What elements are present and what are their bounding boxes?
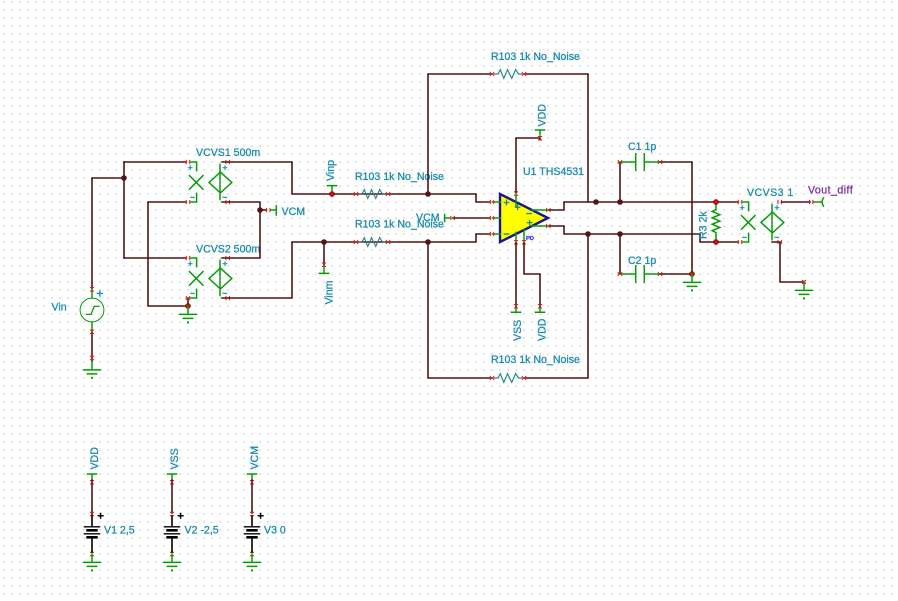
label VDD top marker [535, 130, 544, 135]
svg-text:VSS: VSS [512, 320, 524, 341]
wire VCM node down to VCVS2 out+ [222, 210, 260, 258]
node dot upper a [593, 199, 599, 205]
wire Vin minus to ground [91, 331, 93, 361]
svg-text:Vin: Vin [52, 302, 67, 314]
node junction Vin/controls [121, 175, 127, 181]
wire C1 right to ground rail [660, 162, 692, 273]
label Vout_diff marker [814, 201, 821, 203]
capacitor C2 [618, 266, 663, 283]
svg-text:R103 1k No_Noise: R103 1k No_Noise [491, 354, 580, 366]
ground caps [684, 274, 701, 292]
vcvs VCVS3 [738, 200, 784, 244]
svg-text:C1 1p: C1 1p [628, 141, 656, 153]
svg-text:VCM: VCM [282, 206, 306, 218]
wire top feedback loop [428, 74, 492, 194]
label VSS marker [511, 309, 520, 313]
svg-text:VCVS2 500m: VCVS2 500m [196, 244, 260, 256]
svg-text:Vinm: Vinm [324, 280, 336, 304]
op-amp U1 THS4531 [490, 191, 551, 244]
wire C1 left leg [619, 162, 621, 202]
svg-text:Vout_diff: Vout_diff [808, 185, 853, 197]
node R3 bottom [713, 239, 719, 245]
wire bottom feedback loop [428, 242, 492, 378]
ground VCVS3 [796, 282, 813, 300]
node R3 top [713, 199, 719, 205]
label Vinp marker [327, 186, 336, 191]
wire VSS stub [515, 243, 517, 308]
svg-text:VDD: VDD [89, 447, 101, 470]
battery V3 [244, 474, 264, 572]
svg-text:R103 1k No_Noise: R103 1k No_Noise [355, 171, 444, 183]
wire VCVS2 out- to Vinm rail [222, 234, 490, 298]
wire C2 right to ground node [660, 273, 692, 275]
node dot lower b [617, 231, 623, 237]
ground left [180, 306, 197, 324]
label VDD bottom marker [535, 309, 544, 313]
wire Vinm stub [323, 242, 325, 265]
resistor R103 bottom feedback [490, 374, 527, 383]
vcvs VCVS2 [186, 256, 232, 300]
wire VDD top to opamp [516, 138, 540, 192]
svg-text:R3 2k: R3 2k [698, 211, 710, 239]
label Vinm marker [319, 267, 328, 273]
wire VDD stub [524, 243, 540, 308]
wire VCM to opamp [453, 217, 490, 219]
node Vinm junction [321, 239, 327, 245]
svg-text:VSS: VSS [169, 448, 181, 469]
svg-text:VDD: VDD [536, 104, 548, 127]
wire out minus to upper rail [549, 202, 738, 210]
wire VCVS1 out+ to Vinp rail [222, 162, 490, 202]
ground Vin [84, 362, 101, 380]
svg-text:VCVS3 1: VCVS3 1 [747, 187, 794, 199]
node dot lower a [585, 231, 591, 237]
battery V1 [84, 474, 104, 572]
node junction lower feedback tap [425, 239, 431, 245]
svg-text:C2 1p: C2 1p [628, 255, 656, 267]
wire VCVS1 control minus to ground [148, 202, 188, 306]
battery V2 [164, 474, 184, 572]
node dot upper b [617, 199, 623, 205]
wire VCVS3 out- to ground [772, 242, 803, 282]
voltage source Vin [80, 287, 104, 334]
resistor R103 top feedback [490, 70, 527, 79]
svg-text:V3 0: V3 0 [264, 525, 286, 537]
node VCM junction [257, 207, 263, 213]
resistor R3 [712, 203, 720, 241]
node junction ground left [185, 303, 191, 309]
svg-text:Vinp: Vinp [325, 160, 337, 181]
node junction upper feedback tap [425, 191, 431, 197]
svg-text:VCM: VCM [249, 446, 261, 470]
svg-text:U1 THS4531: U1 THS4531 [523, 166, 584, 178]
wire VCVS2 control minus stub [187, 298, 189, 306]
wire to VCVS2 control plus [124, 257, 186, 259]
svg-text:V2 -2,5: V2 -2,5 [185, 525, 219, 537]
wire VCVS1 out- to VCM node [222, 202, 260, 210]
wire to VCVS1 control plus [124, 161, 186, 163]
svg-text:PD: PD [526, 236, 534, 242]
wire Vin plus up to corner [92, 178, 124, 289]
svg-text:R103 1k No_Noise: R103 1k No_Noise [491, 51, 580, 63]
wire C2 left leg [619, 234, 621, 274]
wire VCVS3 out+ to Vout label [782, 201, 810, 203]
svg-text:V1 2,5: V1 2,5 [104, 525, 135, 537]
svg-text:VCM: VCM [416, 212, 440, 224]
svg-text:VCVS1 500m: VCVS1 500m [196, 147, 260, 159]
wire control bus vertical [123, 162, 125, 258]
vcvs VCVS1 [186, 160, 232, 204]
svg-text:VDD: VDD [536, 318, 548, 341]
node junction cap ground [689, 271, 695, 277]
wire out plus to lower rail [549, 226, 738, 242]
resistor R103 lower input [354, 238, 391, 247]
capacitor C1 [618, 154, 663, 171]
resistor R103 upper input [354, 190, 391, 199]
node Vinp junction [329, 191, 335, 197]
label VCM left [260, 206, 276, 215]
